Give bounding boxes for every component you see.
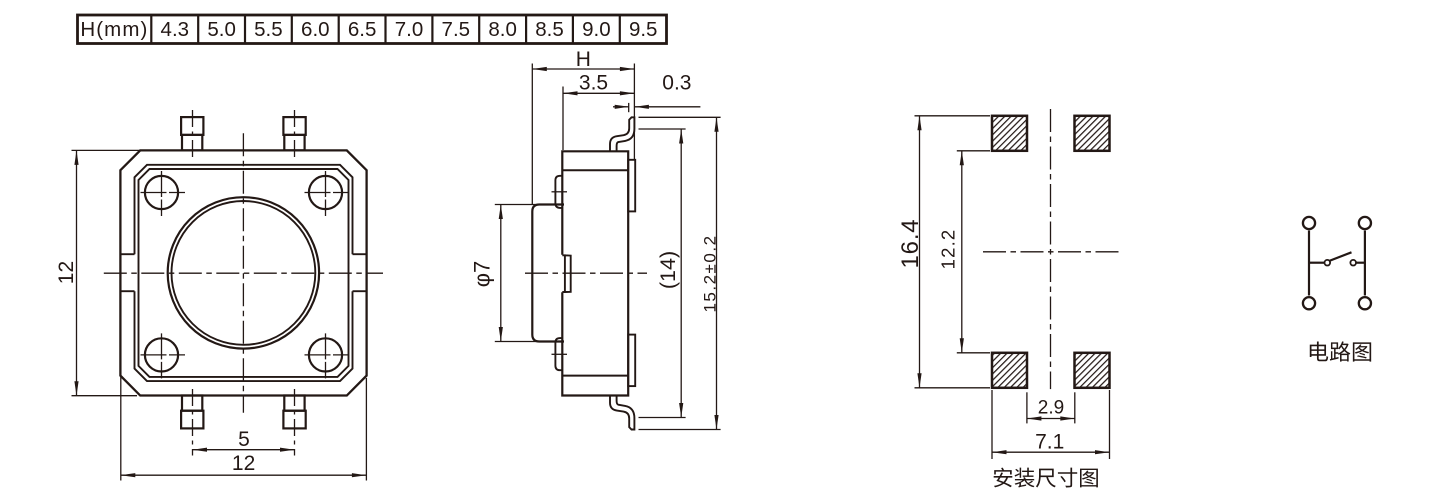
top view: pin centerlines (dash-dot) [192, 110, 194, 157]
top view: rivet circle A3 (bottom-left) with crosshair [145, 338, 178, 371]
label: mounting dimensions (an zhuang chi cun tu) [994, 468, 1098, 488]
svg-text:5.0: 5.0 [207, 18, 236, 41]
svg-text:7.5: 7.5 [442, 18, 471, 41]
dimension 7.1 [991, 390, 993, 459]
top view: rivet circle A2 (top-right) with crosshair [309, 176, 342, 209]
svg-text:φ7: φ7 [470, 261, 495, 288]
dimension 15.2 +/- 0.2 [639, 116, 721, 118]
svg-text:12: 12 [55, 261, 78, 284]
top view: vertical centerline [242, 133, 244, 412]
dimension 3.5 [562, 87, 564, 151]
dimension 0.3 (lead thickness) [628, 103, 630, 112]
dimension 12 (bottom) [120, 377, 122, 481]
mounting layout: horizontal centerline [983, 251, 1119, 253]
side view: gull-wing lead (bottom) [610, 396, 634, 429]
circuit: terminal pin 3 (top-right) [1359, 217, 1371, 229]
dimension 16.4 [915, 115, 991, 117]
top view: rivet circle A1 (top-left) with crosshair [145, 176, 178, 209]
top view: cover edge inner line [139, 169, 349, 377]
table cell texts [80, 18, 657, 41]
svg-text:2.9: 2.9 [1038, 397, 1064, 418]
circuit: right wire [1364, 231, 1366, 296]
svg-text:4.3: 4.3 [161, 18, 190, 41]
side view: gull-wing lead (top) [610, 117, 634, 150]
top view: top-left pin [181, 117, 203, 135]
side view: cover top edge line [562, 169, 628, 171]
dimension H (top) [531, 64, 533, 205]
table column dividers [150, 15, 152, 44]
top view: center push button (outer circle) [168, 197, 319, 348]
circuit: terminal pin 2 (bottom-left) [1303, 297, 1315, 309]
side view: body rectangle [562, 151, 628, 395]
dimension 5 (bottom, pin pitch) [193, 449, 295, 451]
svg-text:9.5: 9.5 [629, 18, 658, 41]
mounting layout: solder pad P3 (bottom-left, hatched) [992, 353, 1027, 388]
top view: right notch caps [353, 253, 367, 255]
svg-text:6.5: 6.5 [348, 18, 377, 41]
circuit: right contact stub and contact circle [1356, 262, 1365, 264]
top view: rivet circle A4 (bottom-right) with crosshair [309, 338, 342, 371]
svg-text:H(mm): H(mm) [80, 18, 148, 41]
top view: bottom-right pin [284, 396, 304, 411]
svg-text:3.5: 3.5 [579, 72, 608, 95]
svg-text:12: 12 [232, 452, 255, 475]
top view: switch body outline (12x12, chamfered corners) [120, 150, 366, 395]
svg-text:(14): (14) [656, 251, 680, 289]
svg-text:8.0: 8.0 [488, 18, 517, 41]
dimension 12 (left side) [72, 149, 141, 151]
top view: cover edge outer line (interrupted at side notches) [135, 165, 353, 254]
dimension 12.2 [957, 150, 990, 152]
svg-text:H: H [576, 48, 591, 71]
circuit: terminal pin 4 (bottom-right) [1359, 297, 1371, 309]
side view: horizontal centerline [525, 272, 647, 274]
svg-text:12.2: 12.2 [938, 229, 959, 270]
side view: cover bottom edge line [562, 375, 628, 377]
svg-text:7.1: 7.1 [1035, 431, 1064, 454]
svg-text:15.2±0.2: 15.2±0.2 [701, 234, 720, 312]
top view: top-right pin [283, 117, 305, 135]
svg-text:6.0: 6.0 [301, 18, 330, 41]
svg-text:9.0: 9.0 [582, 18, 611, 41]
label: circuit diagram (dian lu tu) [1310, 341, 1371, 361]
side view: right cover tab (bottom) [628, 335, 635, 387]
side view: right cover tab (top) [628, 160, 635, 212]
top view: center push button (inner circle) [172, 201, 316, 345]
top view: left notch caps [120, 253, 134, 255]
side view: push button (round stem, phi7) [532, 205, 564, 342]
circuit: left contact stub and contact circle [1309, 262, 1325, 264]
svg-text:0.3: 0.3 [662, 72, 691, 95]
svg-text:5.5: 5.5 [254, 18, 283, 41]
side view: rivet bump (top) [555, 176, 562, 208]
circuit: left wire [1308, 231, 1310, 296]
side view: side notch tab [562, 255, 570, 292]
svg-text:16.4: 16.4 [897, 219, 924, 269]
dimension phi7 [495, 204, 557, 206]
circuit: switch blade (open) [1329, 252, 1352, 261]
mounting layout: solder pad P4 (bottom-right, hatched) [1075, 353, 1110, 388]
dimension 2.9 [1026, 392, 1028, 423]
side view: rivet bump (bottom) [555, 338, 562, 370]
top view: bottom-left pin [182, 396, 202, 411]
mounting layout: vertical centerline [1050, 109, 1052, 389]
dimension (14) [639, 128, 686, 130]
svg-text:5: 5 [238, 428, 250, 451]
svg-text:8.5: 8.5 [535, 18, 564, 41]
top view: horizontal centerline [104, 272, 383, 274]
H table: outer frame [78, 15, 667, 44]
mounting layout: solder pad P1 (top-left, hatched) [992, 116, 1027, 151]
mounting layout: solder pad P2 (top-right, hatched) [1075, 116, 1110, 151]
svg-text:7.0: 7.0 [395, 18, 424, 41]
circuit: terminal pin 1 (top-left) [1303, 217, 1315, 229]
